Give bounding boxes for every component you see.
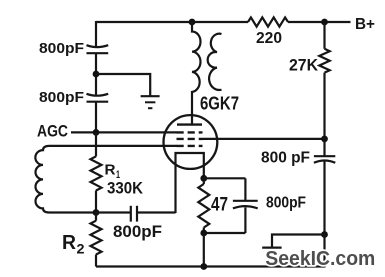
wire C2 bottom lead <box>95 102 97 133</box>
junction AGC node <box>93 129 100 136</box>
wire bottom rail <box>96 265 325 267</box>
wire C1-C2 link <box>95 53 97 95</box>
transformer T1 primary (plate coil) <box>192 22 201 125</box>
wire C1 top lead <box>95 21 97 48</box>
svg-text:R: R <box>62 232 77 254</box>
wire C4 to ground node <box>323 162 325 235</box>
wire ground 2 link <box>272 235 325 248</box>
svg-text:2: 2 <box>77 240 85 256</box>
wire rail to bottom corner <box>323 235 325 268</box>
junction screen node <box>321 136 328 143</box>
tube V1 grid 2 screen (dashed) <box>177 138 203 140</box>
wire screen grid to rail <box>203 138 325 140</box>
junction bottom rail node <box>200 263 207 270</box>
svg-text:800pF: 800pF <box>266 195 306 212</box>
svg-text:AGC: AGC <box>37 122 68 141</box>
wire node to C3 <box>96 211 131 213</box>
resistor 47 cathode bias <box>198 178 228 233</box>
inductor L1 antenna coil <box>35 146 49 213</box>
wire RC box bottom <box>204 232 246 234</box>
capacitor C2 800pF <box>39 89 108 106</box>
svg-text:800pF: 800pF <box>39 40 84 57</box>
resistor R1 330K <box>91 132 144 212</box>
svg-text:27K: 27K <box>289 55 319 74</box>
svg-text:B+: B+ <box>355 16 375 33</box>
svg-text:47: 47 <box>211 195 228 216</box>
svg-text:220: 220 <box>256 30 282 47</box>
junction transformer tap <box>189 19 196 26</box>
wire top bus left <box>96 21 248 23</box>
junction cathode node <box>200 175 207 182</box>
svg-text:R: R <box>105 162 116 179</box>
junction rail ground node <box>321 231 328 238</box>
transformer T1 secondary coil <box>208 34 222 90</box>
wire top bus right <box>288 21 351 23</box>
wire AGC input <box>71 131 177 133</box>
tube V1 grid 1 (dashed) <box>177 131 203 133</box>
tube V1 plate <box>177 123 202 125</box>
node AGC label <box>37 122 68 141</box>
svg-text:800pF: 800pF <box>113 222 162 241</box>
capacitor C5 800pF cathode bypass <box>233 178 306 233</box>
svg-text:330K: 330K <box>107 179 144 198</box>
svg-text:SeekIC.com: SeekIC.com <box>265 248 375 270</box>
ground G2 <box>262 248 281 257</box>
watermark SeekIC.com <box>265 248 375 270</box>
tube V1 grid 3 suppressor (dashed) <box>177 145 203 147</box>
wire coil bottom line <box>49 211 96 213</box>
tube V1 cathode <box>176 153 204 213</box>
wire 27K to screen node <box>323 73 325 139</box>
junction B+ node <box>321 19 328 26</box>
wire B+ rail upper <box>323 22 325 49</box>
capacitor C3 800pF coupling <box>113 206 162 241</box>
wire C3 to cathode tap <box>137 211 176 213</box>
junction R1 bottom node <box>93 209 100 216</box>
wire RC box top <box>204 177 246 179</box>
capacitor C4 800pF screen bypass <box>261 150 335 167</box>
svg-text:800 pF: 800 pF <box>261 150 310 167</box>
wire grid3 line <box>49 145 177 147</box>
svg-text:6GK7: 6GK7 <box>200 94 239 114</box>
node B+ <box>355 16 375 33</box>
resistor R2 <box>62 213 102 267</box>
junction bypass node <box>93 71 100 78</box>
resistor 220 (plate decoupling) <box>248 17 288 47</box>
wire to ground 1 <box>96 74 150 96</box>
ground G1 <box>141 96 160 108</box>
tube V1 6GK7 envelope <box>164 115 218 169</box>
resistor 27K screen dropping <box>289 49 330 75</box>
svg-text:800pF: 800pF <box>39 89 84 106</box>
wire screen node to C4 <box>323 139 325 156</box>
capacitor C1 800pF <box>39 40 108 57</box>
junction 47 bottom node <box>200 230 207 237</box>
tube V1 label <box>200 94 239 114</box>
wire cathode to bottom rail <box>203 233 205 267</box>
